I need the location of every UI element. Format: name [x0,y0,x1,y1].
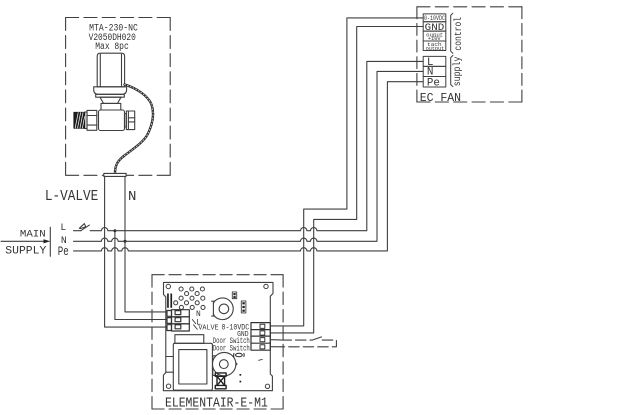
svg-text:control: control [453,17,465,51]
valve left hex nut [87,110,97,130]
control group bracket [451,13,453,53]
crystal component [215,373,226,389]
svg-text:ELEMENTAIR-E-M1: ELEMENTAIR-E-M1 [165,396,268,412]
potentiometer (top) [212,298,234,320]
wire: supply L junction down to ELEMENTAIR L terminal [115,231,167,320]
svg-text:Pe: Pe [58,245,69,259]
svg-text:supply: supply [452,57,464,87]
svg-text:MAIN: MAIN [20,228,46,239]
valve collar [101,103,121,110]
silkscreen tick [259,358,263,361]
EC FAN terminal GND [423,22,446,34]
PCB mounting hole top-right [264,284,268,288]
PCB mounting hole top-left [166,284,170,288]
svg-text:N: N [196,310,201,319]
transformer [166,335,213,390]
left terminal block N / L / VALVE [167,310,189,331]
ELEMENTAIR PCB outline [163,282,273,390]
svg-text:L-VALVE: L-VALVE [45,189,98,205]
pin header bars (2-pin connector) [167,294,172,308]
valve neck taper [100,97,121,103]
svg-text:Door Switch: Door Switch [213,344,250,353]
test point dots [240,374,242,382]
speaker grille holes [174,287,205,310]
svg-text:L: L [60,222,66,233]
svg-text:VALVE: VALVE [198,325,218,333]
valve cable connector [104,173,126,176]
PCB mounting hole bottom-left [166,384,170,388]
ELEMENTAIR dashed box [152,275,283,409]
valve neck ring [96,94,125,97]
wire: valve L to ELEMENTAIR VALVE terminal [105,176,167,327]
MAIN SUPPLY arrow [1,239,50,243]
valve washer [85,112,87,129]
junction dot on L line [113,229,116,232]
sound waves symbol [234,353,245,356]
wire: EC FAN 0-10VDC to ELEMENTAIR [270,18,423,326]
supply bracket line [49,227,51,256]
right terminal block (4 terminals) [251,323,270,351]
2-pin header [232,292,236,299]
svg-text:SUPPLY: SUPPLY [5,245,47,257]
3-pin header [241,301,246,313]
supply line Pe [74,82,424,251]
EC FAN terminal tach output [423,41,446,52]
EC FAN dashed box [417,7,522,102]
EC FAN terminal N [423,66,446,78]
EC FAN terminal ouput +10V [423,31,446,42]
switch on L line [74,224,90,231]
valve right stub [125,114,127,128]
supply group bracket [451,55,453,86]
svg-text:N: N [128,189,136,205]
valve actuator body [97,53,124,87]
supply line N [74,71,424,241]
svg-text:Max 8pc: Max 8pc [95,42,129,53]
svg-text:0-10VDC: 0-10VDC [424,15,445,22]
valve flex cable [115,85,153,174]
EC FAN terminal L [423,56,446,68]
buzzer [213,352,238,375]
valve body [99,110,125,131]
wire: EC FAN GND to ELEMENTAIR [270,27,423,333]
junction dot on N line [124,240,127,243]
door switch wiring [270,337,336,347]
valve dashed enclosure box [66,18,171,176]
PCB mounting hole bottom-right [265,384,269,388]
svg-text:Pe: Pe [427,78,440,90]
svg-text:EC FAN: EC FAN [420,91,461,105]
valve right nut [126,111,134,130]
valve threaded stub (hatched) [74,112,85,128]
EC FAN terminal 0-10VDC [423,14,446,22]
svg-text:output: output [426,45,445,52]
valve actuator flange [94,87,127,95]
supply line L [90,61,423,230]
silkscreen slash marks [192,320,197,330]
EC FAN terminal Pe [423,77,446,90]
wire: valve N down to supply N and ELEMENTAIR N terminal [125,176,167,312]
